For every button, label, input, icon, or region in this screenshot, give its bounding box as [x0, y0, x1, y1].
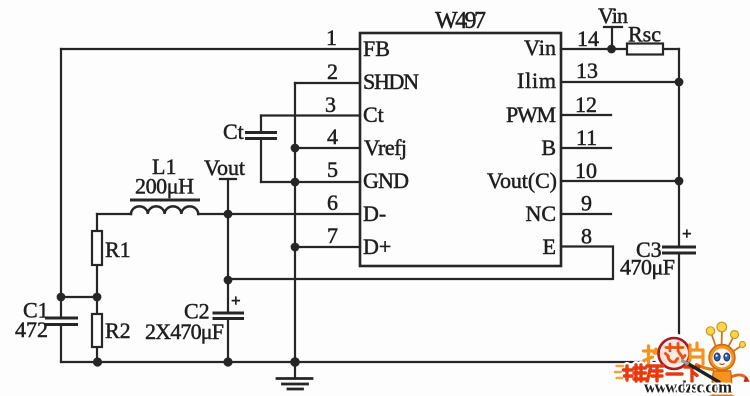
wire pin11 B stub: [561, 147, 611, 149]
watermark mascot antenna balls: [706, 322, 745, 347]
watermark mascot antennae: [712, 331, 742, 352]
watermark mascot face: [713, 349, 732, 368]
watermark mascot feet: [709, 394, 735, 396]
wire Ct top lead: [260, 116, 262, 133]
svg-text:Rsc: Rsc: [628, 22, 661, 47]
wire pin5 GND net: [261, 181, 360, 183]
svg-text:9: 9: [581, 191, 592, 216]
wire left rail upper: [60, 49, 62, 318]
wire C2 bottom lead: [227, 319, 229, 363]
node junction pin10/rail: [675, 177, 684, 186]
svg-text:PWM: PWM: [506, 102, 556, 127]
svg-text:D+: D+: [363, 234, 391, 259]
watermark char xin (core): [666, 344, 686, 363]
svg-text:Vout(C): Vout(C): [487, 168, 557, 193]
wire ground column: [294, 83, 296, 362]
watermark red text wei-ku-yi-xia: [624, 365, 700, 382]
wire pin9 NC stub: [561, 213, 611, 215]
node junction C2/bottom: [223, 357, 232, 366]
wire Vin stem: [611, 27, 613, 49]
svg-text:+: +: [682, 224, 692, 243]
svg-text:E: E: [543, 234, 556, 259]
svg-text:10: 10: [575, 158, 597, 183]
wire Vout stem: [227, 179, 229, 214]
wire L1 left lead: [97, 213, 131, 215]
svg-text:NC: NC: [525, 201, 556, 226]
wire pin2 SHDN: [295, 82, 360, 84]
watermark char zhao (find): [644, 345, 669, 365]
svg-text:B: B: [541, 135, 556, 160]
svg-text:+: +: [231, 291, 241, 310]
node junction R1/R2: [93, 293, 102, 302]
inductor L1: [131, 206, 198, 214]
svg-text:472: 472: [15, 317, 48, 342]
watermark white halo backing: [624, 337, 704, 383]
node junction left rail y297: [57, 293, 66, 302]
svg-text:SHDN: SHDN: [363, 69, 419, 94]
watermark mascot tail: [731, 375, 747, 379]
watermark mascot head ring: [709, 345, 735, 371]
watermark char pian (chip): [687, 343, 703, 364]
svg-text:7: 7: [327, 223, 338, 248]
op-amp U1 IC W497 body: [360, 33, 561, 266]
watermark mascot eyes: [714, 353, 720, 361]
capacitor C2: [213, 313, 245, 319]
svg-text:Vin: Vin: [598, 3, 628, 28]
wire pin4 Vrefj: [295, 147, 360, 149]
watermark magnifier circle: [659, 338, 690, 369]
svg-text:Vrefj: Vrefj: [364, 135, 407, 160]
capacitor C1: [45, 318, 78, 325]
watermark mascot smile: [720, 364, 725, 365]
node junction ground column/bottom: [290, 357, 300, 367]
svg-text:Ilim: Ilim: [517, 68, 556, 93]
svg-text:5: 5: [327, 157, 338, 182]
label L1 underline: [130, 199, 200, 202]
wire D- net L1 to pin6: [198, 213, 360, 215]
svg-text:Vin: Vin: [524, 35, 556, 60]
node junction pin14/Vin: [607, 45, 616, 54]
wire Ct bottom lead: [260, 139, 262, 183]
svg-text:W497: W497: [435, 8, 486, 34]
capacitor Ct: [245, 133, 277, 139]
svg-text:6: 6: [327, 190, 338, 215]
watermark: [615, 322, 750, 396]
wire R2 bottom lead: [96, 347, 98, 362]
svg-text:D-: D-: [363, 201, 386, 226]
svg-text:R2: R2: [105, 318, 131, 343]
svg-text:1: 1: [326, 25, 337, 50]
node junction pin7: [291, 243, 300, 252]
svg-text:GND: GND: [363, 168, 409, 193]
svg-text:470μF: 470μF: [620, 255, 675, 280]
node junction E-wire/Vout column: [224, 276, 233, 285]
wire left rail lower: [60, 325, 62, 363]
resistor R2: [92, 314, 102, 347]
resistor R1: [92, 231, 102, 265]
wire pin3 Ct net: [261, 114, 360, 116]
svg-text:R1: R1: [105, 237, 131, 262]
svg-text:200μH: 200μH: [135, 174, 194, 199]
wire pin10 Vout(C): [561, 180, 679, 182]
wire Vout column upper: [227, 214, 229, 313]
wire right rail upper: [678, 49, 680, 247]
node junction pin5/Ct: [291, 178, 300, 187]
svg-text:Ct: Ct: [223, 119, 244, 144]
svg-text:13: 13: [576, 58, 598, 83]
wire R1 top lead: [96, 214, 98, 231]
resistor Rsc: [627, 44, 663, 55]
wire pin7 D+: [295, 246, 360, 248]
svg-text:Ct: Ct: [363, 102, 384, 127]
wire pin13 Ilim: [561, 81, 679, 83]
svg-text:3: 3: [325, 92, 336, 117]
wire R1-R2 middle lead: [96, 265, 98, 314]
wire top FB net: [61, 48, 360, 50]
wire E net pin8: [228, 247, 613, 280]
svg-text:www.dzsc.com: www.dzsc.com: [644, 378, 732, 396]
wire rail-to-divider: [61, 296, 97, 298]
node Vout junction: [224, 210, 233, 219]
watermark mascot pen probe: [686, 363, 719, 383]
node Vin terminal bar: [604, 26, 622, 28]
node Vout terminal bar: [220, 178, 236, 180]
wire pin12 PWM stub: [561, 114, 611, 116]
svg-text:2: 2: [327, 59, 338, 84]
svg-text:Vout: Vout: [204, 155, 245, 180]
svg-text:4: 4: [327, 124, 338, 149]
node junction R2/bottom: [93, 357, 102, 366]
wire Rsc to rail: [663, 48, 679, 50]
wire right rail lower: [678, 253, 680, 362]
svg-text:2X470μF: 2X470μF: [145, 319, 224, 344]
node junction pin4: [291, 144, 300, 153]
watermark mascot arm: [697, 365, 714, 370]
svg-text:FB: FB: [363, 36, 390, 61]
node junction pin13/rail: [675, 78, 684, 87]
wire bottom ground net: [61, 361, 680, 363]
ground: [294, 362, 296, 378]
svg-text:14: 14: [577, 26, 599, 51]
svg-text:8: 8: [581, 224, 592, 249]
watermark mascot body: [712, 371, 731, 396]
svg-text:11: 11: [576, 125, 597, 150]
watermark sparkle marks: [615, 366, 623, 378]
capacitor C3: [662, 247, 696, 253]
wire pin14 to Rsc: [561, 48, 627, 50]
svg-text:12: 12: [575, 92, 597, 117]
